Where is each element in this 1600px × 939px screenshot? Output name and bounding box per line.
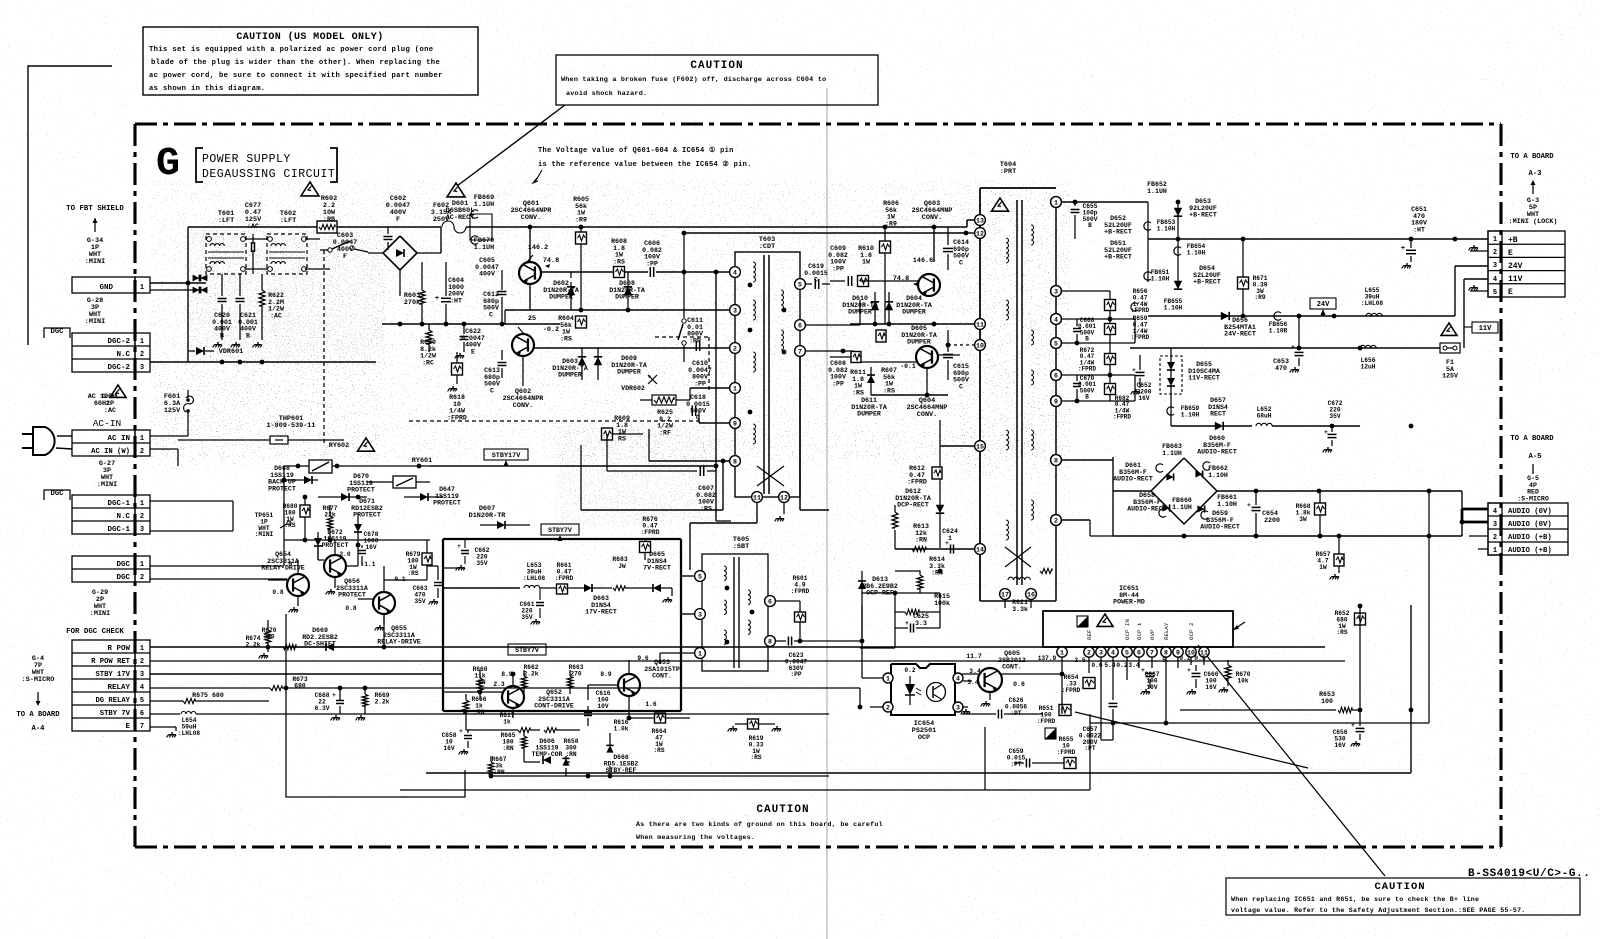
wire Q605 xyxy=(962,674,1043,706)
resistor R614 xyxy=(895,571,923,593)
svg-text:CAUTION: CAUTION xyxy=(756,804,809,816)
svg-text:8.9: 8.9 xyxy=(600,671,611,678)
wire Q654 base xyxy=(268,580,287,620)
label R670b xyxy=(1236,671,1251,684)
label R621 xyxy=(1012,599,1028,613)
wire C623 to IC654 xyxy=(810,605,864,643)
resistor R654 box xyxy=(1083,678,1095,689)
bottom bus 790 xyxy=(400,727,985,790)
diode R607 xyxy=(867,362,875,395)
svg-text:12: 12 xyxy=(976,231,984,238)
svg-text:E: E xyxy=(125,723,130,731)
wire IC651 pin6 down xyxy=(1138,657,1140,668)
svg-text:C: C xyxy=(490,387,494,394)
resistor R669 xyxy=(338,686,368,721)
label STBY7V box 1 xyxy=(541,524,579,541)
resistor R605 box xyxy=(576,227,587,310)
svg-text:DUMPER: DUMPER xyxy=(549,294,573,301)
svg-text:1.10R: 1.10R xyxy=(1269,327,1288,334)
label THP601 xyxy=(267,415,316,430)
svg-text::FPRD: :FPRD xyxy=(1131,307,1150,314)
wire IC651 pin10 down xyxy=(1190,657,1192,665)
wire pin3 bottom link xyxy=(1101,726,1113,740)
svg-text:1.10H: 1.10H xyxy=(1217,501,1237,508)
T604 pin 4 xyxy=(1051,314,1062,325)
resistor R680 box xyxy=(300,497,310,540)
svg-text:8: 8 xyxy=(733,459,737,466)
wire Q656 collector xyxy=(335,540,358,566)
wire pin12 ground xyxy=(775,503,784,521)
resistor R663 xyxy=(567,670,573,694)
junction dots audio xyxy=(1409,424,1432,539)
label FB655 xyxy=(1164,298,1183,311)
svg-text:B: B xyxy=(1085,394,1089,401)
capacitor C661 xyxy=(531,588,545,624)
warning triangle T604 xyxy=(992,198,1009,211)
diode D613 zener xyxy=(858,571,866,605)
T605 pin 6 xyxy=(765,596,776,607)
label STBY7V box 2 xyxy=(508,644,546,655)
svg-text::R9: :R9 xyxy=(575,216,587,223)
svg-text:12: 12 xyxy=(780,495,788,502)
IC651 pin 7 xyxy=(1147,647,1157,657)
svg-text:JW: JW xyxy=(618,563,626,570)
leader line from caution box to F602 xyxy=(457,105,565,186)
capacitor C607 xyxy=(607,434,716,476)
resistor R661 box xyxy=(555,562,574,594)
svg-text:1: 1 xyxy=(140,500,144,508)
svg-text:6: 6 xyxy=(768,599,772,606)
wire DG RELAY row xyxy=(150,688,269,704)
bead FB656 xyxy=(1274,312,1281,320)
fuse F1 xyxy=(1440,343,1460,353)
svg-text::RC: :RC xyxy=(422,359,434,366)
degauss switch xyxy=(320,241,368,252)
wire vertical x1135 xyxy=(1134,319,1136,401)
svg-text:125V: 125V xyxy=(1442,373,1458,380)
label Q605 xyxy=(998,650,1026,671)
wire T605 pin5 xyxy=(681,539,694,576)
T603 pin 7 xyxy=(795,346,806,357)
wire R POW RET row xyxy=(150,657,1345,661)
wire IC651 pin7 down xyxy=(1151,657,1153,668)
svg-text:OCP IN: OCP IN xyxy=(1124,619,1131,640)
capacitor C606 xyxy=(650,267,653,277)
connector G-29 label xyxy=(90,589,110,618)
svg-text::RS: :RS xyxy=(1336,629,1347,636)
label D655 xyxy=(1188,361,1220,382)
wire Q655 emitter xyxy=(375,614,384,630)
wire 11V connector xyxy=(1464,279,1488,348)
IC651 pin 3 xyxy=(1096,647,1106,657)
resistor box chain r4 xyxy=(1105,375,1116,401)
label C614 xyxy=(953,239,969,266)
svg-text:RELAY: RELAY xyxy=(1163,622,1170,640)
resistor R603 xyxy=(419,262,425,324)
resistor R677 xyxy=(327,505,333,540)
svg-text:24V-RECT: 24V-RECT xyxy=(1224,331,1256,338)
T604 pin 10 xyxy=(975,340,986,351)
svg-text:DGC-2: DGC-2 xyxy=(107,364,130,372)
arrow to FBT shield xyxy=(93,218,98,232)
wire Q603 collector xyxy=(933,227,935,324)
label D612 xyxy=(895,488,931,509)
T605 pin 8 xyxy=(765,636,776,647)
IC651 pin 8 xyxy=(1161,647,1171,657)
svg-text:DGC-1: DGC-1 xyxy=(107,500,130,508)
svg-text::HT: :HT xyxy=(1413,226,1425,233)
svg-text:DGC-2: DGC-2 xyxy=(107,338,130,346)
wire Q601 collector row xyxy=(541,271,729,273)
svg-text:1.1UH: 1.1UH xyxy=(1162,450,1182,457)
svg-text::MINI: :MINI xyxy=(90,610,110,618)
T604 pin 14 xyxy=(975,544,986,555)
svg-text:STBY17V: STBY17V xyxy=(492,452,521,460)
label C613 xyxy=(484,367,500,394)
wire E row xyxy=(150,727,176,737)
wire DGC riser 2 xyxy=(150,523,287,579)
label R607 xyxy=(881,367,897,394)
T603 pin 11 xyxy=(752,492,763,503)
svg-text:6: 6 xyxy=(1054,373,1058,380)
svg-text:5: 5 xyxy=(1054,341,1058,348)
svg-text:-0.1: -0.1 xyxy=(900,363,916,370)
T604 core xyxy=(1017,200,1022,585)
svg-text:35V: 35V xyxy=(1329,413,1340,420)
label R654 xyxy=(1062,674,1081,694)
svg-text:390: 390 xyxy=(263,633,274,640)
svg-text::SBT: :SBT xyxy=(733,543,749,551)
wire C663 top xyxy=(427,566,438,570)
capacitor C668 xyxy=(331,688,344,720)
transistor Q653 xyxy=(600,671,656,708)
svg-text:6.3V: 6.3V xyxy=(315,705,330,712)
capacitor C659 xyxy=(1014,759,1064,768)
svg-text::FPRD: :FPRD xyxy=(1037,718,1056,725)
sheet code B-SS4019 xyxy=(1468,868,1590,880)
label R602 xyxy=(321,195,337,224)
wire Q656 emitter xyxy=(326,577,335,594)
wire Q654 collector xyxy=(284,540,298,574)
caution box (broken fuse F602) xyxy=(556,55,878,105)
label D653 xyxy=(1189,198,1217,219)
svg-text:PROTECT: PROTECT xyxy=(433,500,461,507)
diode D656 xyxy=(1221,312,1229,320)
diode D647 xyxy=(404,493,443,501)
svg-text:9: 9 xyxy=(1054,399,1058,406)
label FB670 xyxy=(474,237,494,252)
capacitor C604 xyxy=(435,253,451,324)
svg-text:+B: +B xyxy=(1508,236,1518,245)
svg-text:B: B xyxy=(246,332,250,339)
diode D670 xyxy=(318,493,367,501)
wire pin7 stub xyxy=(805,349,854,354)
thick rail box xyxy=(443,539,681,711)
resistor R617 xyxy=(508,727,540,732)
capacitor C652 xyxy=(1131,348,1148,394)
svg-text:DGC: DGC xyxy=(51,490,65,498)
svg-text:3: 3 xyxy=(1493,521,1497,529)
svg-text::RS: :RS xyxy=(852,389,864,396)
svg-text:1.10H: 1.10H xyxy=(1181,411,1200,418)
T605 coils xyxy=(724,566,754,644)
svg-text:146.6: 146.6 xyxy=(913,257,933,265)
svg-text:GND: GND xyxy=(99,284,113,292)
svg-text::RN: :RN xyxy=(915,537,927,544)
svg-text:blade of the plug is wider tha: blade of the plug is wider than the othe… xyxy=(151,59,440,67)
svg-text:3: 3 xyxy=(1054,289,1058,296)
svg-text:2: 2 xyxy=(1493,249,1497,257)
svg-text::S-MICRO: :S-MICRO xyxy=(1517,495,1549,502)
svg-text:E: E xyxy=(1508,288,1513,297)
nested rect 1 xyxy=(286,614,465,797)
IC651 pin 9 xyxy=(1173,647,1183,657)
capacitor C678 xyxy=(358,545,366,566)
connector AC IN block xyxy=(72,430,150,456)
label R608 xyxy=(611,238,627,265)
capacitor C621 xyxy=(231,274,245,347)
svg-text:1: 1 xyxy=(1054,200,1058,207)
label FB652 xyxy=(1147,181,1167,195)
label R651 xyxy=(1037,705,1056,725)
diode D658z xyxy=(562,756,569,766)
T604 pin 2 xyxy=(1051,515,1062,526)
svg-text::LHL08: :LHL08 xyxy=(1361,300,1384,307)
warning triangle (R602) xyxy=(301,182,319,196)
label R658 xyxy=(564,738,579,758)
resistor box chain r3 xyxy=(1105,345,1116,375)
connector R POW block xyxy=(72,640,150,731)
svg-text::PP: :PP xyxy=(832,380,844,387)
wire 24V connector xyxy=(1455,266,1488,316)
resistor R613 xyxy=(892,505,898,530)
label TO A BOARD A-3 xyxy=(1510,153,1554,178)
wire IC651 pin5 down xyxy=(1126,657,1128,680)
svg-text:VDR601: VDR601 xyxy=(219,348,243,356)
label D602 xyxy=(543,280,579,301)
svg-text:3: 3 xyxy=(1099,650,1103,657)
wire long vertical x716 xyxy=(716,272,731,521)
diode D604d xyxy=(885,292,893,324)
connector DGC block xyxy=(72,556,150,582)
svg-text:1: 1 xyxy=(140,645,144,653)
T604 pin 15 xyxy=(975,441,986,452)
svg-text::PP: :PP xyxy=(646,260,658,267)
label RY602 xyxy=(329,442,349,450)
svg-text:1.0k: 1.0k xyxy=(614,725,629,732)
label D647 xyxy=(433,486,461,507)
diode D665b xyxy=(653,584,661,592)
wire pin9 row xyxy=(699,411,729,423)
label R619 xyxy=(749,735,764,761)
label R653 xyxy=(1319,691,1335,705)
T604 right coils xyxy=(1031,225,1034,520)
svg-text:68uH: 68uH xyxy=(1257,412,1272,419)
svg-text::PP: :PP xyxy=(832,265,844,272)
label DGC (upper) xyxy=(44,328,70,338)
svg-text:15: 15 xyxy=(976,444,984,451)
wire pin12 line xyxy=(684,231,974,236)
wire IC651 pin11 down xyxy=(1203,657,1205,665)
label IC651 xyxy=(1113,585,1145,606)
label Q655 xyxy=(377,625,421,646)
junction dots relay xyxy=(282,478,361,543)
svg-text:3.4: 3.4 xyxy=(1128,662,1139,669)
label C652 xyxy=(1137,382,1152,402)
AC plug symbol xyxy=(22,427,72,455)
photocoupler glyph 2 xyxy=(1045,728,1056,739)
wire 17V row xyxy=(443,585,672,602)
wire relay RY602 xyxy=(284,466,560,523)
resistor R651 box xyxy=(1059,705,1071,716)
label R682 xyxy=(1113,395,1131,421)
svg-text:1: 1 xyxy=(140,435,144,443)
wire D613 row xyxy=(862,569,942,596)
svg-text:2.2k: 2.2k xyxy=(375,698,390,705)
label T601 xyxy=(218,210,234,225)
audio bridge diamond xyxy=(1151,458,1217,524)
wire Q655 collector xyxy=(384,565,427,592)
svg-text:RY601: RY601 xyxy=(412,457,432,465)
wire rect verticals xyxy=(1148,200,1180,290)
svg-text:As there are two kinds of grou: As there are two kinds of ground on this… xyxy=(636,821,883,828)
wire Q656 base xyxy=(305,540,324,574)
wire Q652 base row xyxy=(443,690,502,695)
label R683 xyxy=(612,556,628,570)
transformer T602 xyxy=(267,234,307,274)
label D670 xyxy=(347,473,375,494)
label FOR DGC CHECK xyxy=(66,628,124,636)
capacitor C668b xyxy=(1073,319,1081,343)
transistor Q654 xyxy=(287,574,309,596)
T604 pin 8 again xyxy=(1051,455,1062,466)
T603 pin 4 xyxy=(730,267,741,278)
label L654 xyxy=(178,717,201,737)
label D651 xyxy=(1104,240,1132,261)
svg-text:35V: 35V xyxy=(521,614,532,621)
wire Q652 collector xyxy=(511,672,524,718)
svg-text:OCP-REF: OCP-REF xyxy=(866,590,894,597)
wire D669 row link xyxy=(266,614,387,652)
svg-text:DUMPER: DUMPER xyxy=(907,339,931,346)
svg-text:3: 3 xyxy=(733,308,737,315)
label R618 xyxy=(447,394,467,421)
capacitor C670b xyxy=(1073,375,1081,401)
wire T604 pin3 out xyxy=(1062,291,1110,299)
label D659 xyxy=(1200,510,1240,531)
svg-text:3: 3 xyxy=(1493,262,1497,270)
svg-text:35V: 35V xyxy=(476,560,487,567)
resistor R665 xyxy=(521,730,527,756)
svg-text:CAUTION: CAUTION xyxy=(1374,881,1425,893)
svg-text:AUDIO-RECT: AUDIO-RECT xyxy=(1200,524,1240,531)
label Q656 xyxy=(336,578,368,599)
svg-text::FPRD: :FPRD xyxy=(1113,414,1131,421)
svg-text:+B-RECT: +B-RECT xyxy=(1193,279,1221,286)
svg-text:+: + xyxy=(1324,429,1328,436)
label R613 xyxy=(913,523,929,544)
bead FB659 xyxy=(1167,407,1174,415)
svg-text:3.3: 3.3 xyxy=(915,620,927,627)
label R655 xyxy=(1057,736,1076,756)
T604 pin 13 xyxy=(975,215,986,226)
svg-text::PT: :PT xyxy=(1010,710,1021,717)
svg-text:0.8: 0.8 xyxy=(272,589,283,596)
svg-text:-0.2: -0.2 xyxy=(543,326,559,334)
label D611 xyxy=(851,397,887,418)
T603 core xyxy=(764,255,769,494)
transistor Q602 xyxy=(512,315,559,356)
svg-text:9: 9 xyxy=(733,421,737,428)
svg-text:TO A BOARD: TO A BOARD xyxy=(1510,153,1554,161)
svg-text:250V: 250V xyxy=(433,216,450,224)
diode D603 pair xyxy=(578,348,602,380)
svg-text:F: F xyxy=(343,253,347,261)
board designator G xyxy=(156,142,180,187)
svg-text:CAUTION (US MODEL ONLY): CAUTION (US MODEL ONLY) xyxy=(236,31,383,43)
svg-text::LFT: :LFT xyxy=(218,217,234,225)
wire Q653 links xyxy=(570,685,654,720)
svg-text:+: + xyxy=(457,543,461,550)
IC651 pin 4 xyxy=(1108,647,1118,657)
svg-text:1k: 1k xyxy=(503,718,511,725)
wire stby17 right xyxy=(430,458,560,466)
T603 right edge ext xyxy=(800,357,829,510)
wire IC654 right xyxy=(961,678,978,714)
svg-text:1: 1 xyxy=(733,386,737,393)
label C615 xyxy=(953,363,969,390)
transformer T601 xyxy=(206,234,246,274)
label Q602 text xyxy=(503,388,545,410)
wire T604 pin6 out xyxy=(1062,373,1135,378)
label D660 xyxy=(1197,435,1237,456)
label C678 xyxy=(364,531,379,551)
label C662 xyxy=(475,547,490,567)
label D605 xyxy=(876,325,937,346)
svg-text:+: + xyxy=(459,728,463,735)
label R662 xyxy=(524,664,539,677)
svg-text:When measuring the voltages.: When measuring the voltages. xyxy=(636,834,755,841)
label D658b xyxy=(1183,448,1185,458)
label C654 xyxy=(1262,510,1280,524)
label VDR601 xyxy=(219,348,243,356)
T603 bottom cross xyxy=(757,466,784,486)
label C608 xyxy=(828,360,848,387)
T604 pin 8 xyxy=(1051,455,1062,466)
svg-text:OCP: OCP xyxy=(918,734,930,742)
thermistor THP601 xyxy=(178,436,344,466)
svg-text::PRT: :PRT xyxy=(1000,168,1016,176)
leader IC651 arrow xyxy=(1233,622,1245,630)
svg-text::FPRD: :FPRD xyxy=(640,529,659,536)
svg-text:B: B xyxy=(220,332,224,339)
diode D669 zener xyxy=(310,643,352,651)
svg-text:10: 10 xyxy=(976,343,984,350)
wire pin15 xyxy=(927,420,974,446)
label C659 xyxy=(1007,748,1026,768)
label T602 xyxy=(280,210,296,225)
svg-text:1.10H: 1.10H xyxy=(1187,249,1206,256)
audio box wires xyxy=(1113,457,1462,538)
svg-text::FPRD: :FPRD xyxy=(907,479,927,486)
capacitor C667 xyxy=(1141,657,1155,694)
warning triangle AC xyxy=(110,385,126,397)
connector A-3 block (+B/E/24V/11V/E) xyxy=(1488,231,1565,297)
svg-text:+: + xyxy=(1187,667,1191,674)
wire y710 R653 xyxy=(1180,606,1362,713)
svg-text:This set is equipped with a po: This set is equipped with a polarized ac… xyxy=(149,46,433,54)
svg-text:C654: C654 xyxy=(1262,510,1278,517)
